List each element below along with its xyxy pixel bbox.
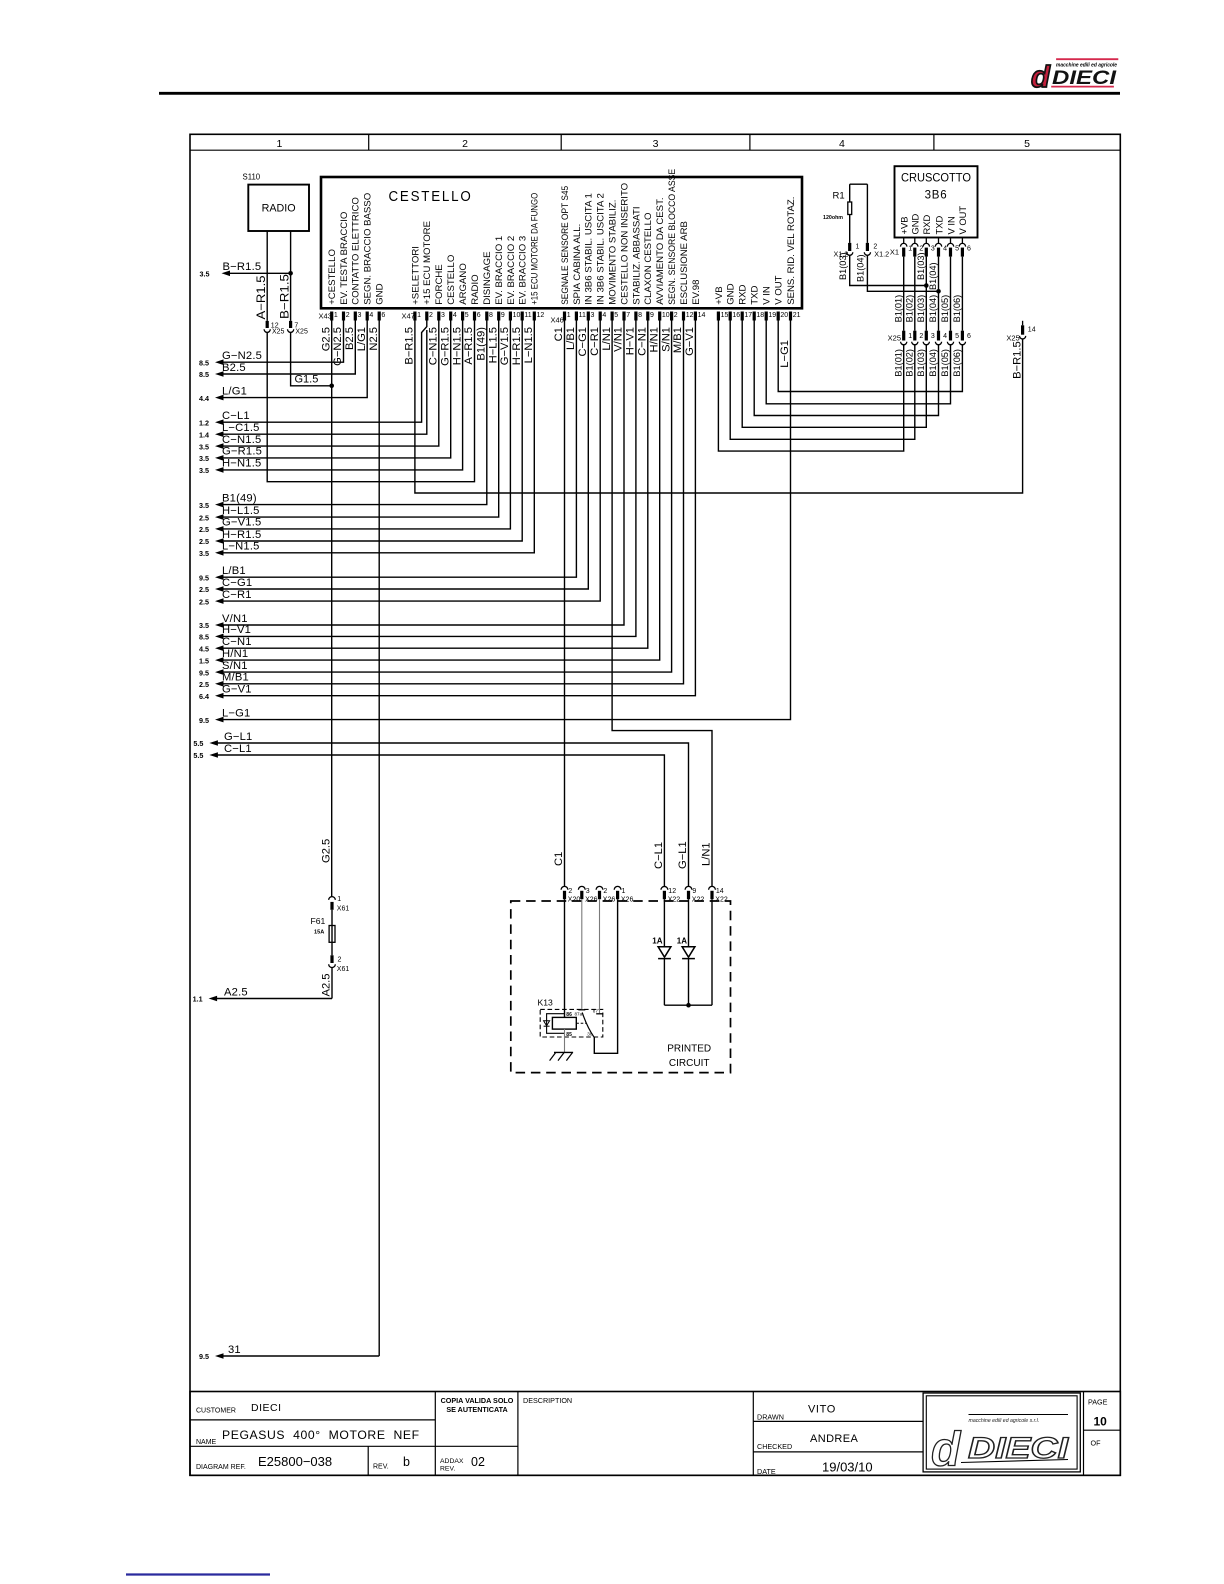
X1 pin 6 <box>961 238 963 244</box>
title block rows left <box>190 1419 435 1421</box>
svg-text:C−L1: C−L1 <box>222 410 250 422</box>
wire B1(06) X1 to X25 <box>961 257 963 331</box>
svg-text:120ohm: 120ohm <box>823 215 843 221</box>
wire X22-14 down <box>711 899 713 1005</box>
svg-text:2: 2 <box>919 333 923 340</box>
svg-text:N2.5: N2.5 <box>368 327 380 351</box>
svg-text:12: 12 <box>537 312 545 319</box>
svg-text:L/G1: L/G1 <box>356 327 368 351</box>
connector X22 pin 9 <box>685 886 692 889</box>
svg-text:3.5: 3.5 <box>200 269 210 278</box>
svg-text:1: 1 <box>622 888 626 895</box>
bottom DIECI logo box <box>923 1393 1080 1472</box>
svg-text:B1(06): B1(06) <box>952 295 962 323</box>
svg-text:d: d <box>1031 59 1051 94</box>
X46 pin 3 tick <box>587 312 590 321</box>
wire N2.5 X43 pin6 down <box>378 321 380 1357</box>
svg-text:REV.: REV. <box>440 1466 455 1473</box>
svg-text:X1: X1 <box>890 248 899 257</box>
relay K13 coil <box>552 1017 576 1029</box>
wire X26-3 to contact 87a <box>581 899 583 1009</box>
X46 pin 14 tick <box>694 312 697 321</box>
svg-text:14: 14 <box>1028 327 1036 334</box>
svg-text:F61: F61 <box>311 916 326 926</box>
wire B1(03) X1.2-1 to X1-3 <box>850 255 927 285</box>
wire RXD X46 pin17 to X25 pin3 <box>742 321 926 428</box>
svg-text:+CESTELLO: +CESTELLO <box>327 249 338 305</box>
svg-text:10: 10 <box>1094 1415 1108 1429</box>
svg-text:C−N1: C−N1 <box>222 636 252 648</box>
X46 pin 12 tick <box>682 312 685 321</box>
X46 pin 4 tick <box>599 312 602 321</box>
svg-text:3.5: 3.5 <box>199 466 209 475</box>
svg-text:+SELETTORI: +SELETTORI <box>410 246 421 305</box>
svg-text:9: 9 <box>501 312 505 319</box>
svg-text:5: 5 <box>955 246 959 253</box>
X1 pin 3 <box>925 238 927 244</box>
svg-text:FORCHE: FORCHE <box>434 264 445 305</box>
svg-text:VITO: VITO <box>808 1404 836 1416</box>
bottom blue scan mark <box>126 1573 270 1575</box>
X46 pin 16 tick <box>729 312 732 321</box>
svg-text:C−L1: C−L1 <box>224 743 252 755</box>
svg-text:B1(02): B1(02) <box>905 295 915 323</box>
connector X61 pin 1 <box>329 897 336 900</box>
X46 pin 8 tick <box>634 312 637 321</box>
svg-text:1A: 1A <box>677 937 687 946</box>
X46 pin 20 tick <box>777 312 780 321</box>
svg-text:87: 87 <box>593 1009 599 1014</box>
svg-text:COPIA VALIDA SOLO: COPIA VALIDA SOLO <box>441 1396 514 1405</box>
svg-text:21: 21 <box>793 312 801 319</box>
svg-text:DIECI: DIECI <box>251 1402 282 1414</box>
svg-text:A−R1.5: A−R1.5 <box>255 276 268 320</box>
svg-text:MOVIMENTO STABILIZ.: MOVIMENTO STABILIZ. <box>608 200 619 305</box>
svg-text:G2.5: G2.5 <box>320 327 332 351</box>
X25 pin 6 <box>961 331 964 341</box>
svg-text:1.4: 1.4 <box>199 430 209 439</box>
svg-text:REV.: REV. <box>373 1464 389 1471</box>
svg-text:2.5: 2.5 <box>199 525 209 534</box>
junction dot G1.5/G2.5 <box>329 384 334 389</box>
svg-text:1: 1 <box>417 312 421 319</box>
svg-text:C1: C1 <box>553 852 565 866</box>
X47 pin 6 tick <box>473 312 476 321</box>
svg-text:+15 ECU MOTORE DA FUNGO: +15 ECU MOTORE DA FUNGO <box>530 193 541 305</box>
X43 pin 2 tick <box>342 312 345 321</box>
svg-text:10: 10 <box>513 312 521 319</box>
svg-text:2.5: 2.5 <box>199 680 209 689</box>
svg-text:X25: X25 <box>888 334 901 343</box>
wire B1(03) X1 to X25 <box>925 257 927 331</box>
connector X26 pin 2 <box>596 886 603 889</box>
X46 pin 2 tick <box>670 312 673 321</box>
X46 pin 5 tick <box>611 312 614 321</box>
wire C-N1 <box>215 645 224 651</box>
svg-text:DIAGRAM REF.: DIAGRAM REF. <box>196 1464 246 1471</box>
svg-text:1: 1 <box>856 244 860 251</box>
svg-text:V/N1: V/N1 <box>222 613 248 625</box>
svg-text:CHECKED: CHECKED <box>757 1442 792 1451</box>
svg-text:EV. TESTA BRACCIO: EV. TESTA BRACCIO <box>339 212 350 305</box>
svg-text:d: d <box>931 1424 962 1477</box>
svg-text:3: 3 <box>441 312 445 319</box>
svg-text:C−L1: C−L1 <box>653 842 665 869</box>
svg-text:9: 9 <box>650 312 654 319</box>
wire B-R1.5 radio pin <box>290 231 292 321</box>
svg-text:G−V1: G−V1 <box>684 327 696 356</box>
svg-text:B2.5: B2.5 <box>222 362 246 374</box>
svg-text:A2.5: A2.5 <box>321 973 333 996</box>
fuse F61 <box>331 910 333 926</box>
svg-text:H−R1.5: H−R1.5 <box>511 327 523 365</box>
wire C-G1 <box>215 586 224 592</box>
wire C-L1 to X47 pin2 <box>215 419 224 425</box>
svg-text:C−G1: C−G1 <box>222 577 252 589</box>
svg-text:30: 30 <box>587 1031 593 1036</box>
svg-text:X61: X61 <box>337 966 350 973</box>
svg-text:G1.5: G1.5 <box>295 374 319 386</box>
svg-text:20: 20 <box>780 312 788 319</box>
svg-text:4: 4 <box>602 312 606 319</box>
svg-text:85: 85 <box>566 1032 572 1038</box>
svg-text:H−L1.5: H−L1.5 <box>487 327 499 363</box>
wire TXD X46 pin18 to X25 pin4 <box>754 321 938 416</box>
wire B1(49) <box>215 502 224 508</box>
svg-text:H−N1.5: H−N1.5 <box>222 458 261 470</box>
svg-text:3: 3 <box>653 138 659 150</box>
svg-text:3.5: 3.5 <box>199 442 209 451</box>
svg-text:3: 3 <box>591 312 595 319</box>
svg-text:11: 11 <box>524 312 531 319</box>
wire B1(05) X1 to X25 <box>950 257 952 331</box>
wire G-R1.5 <box>215 455 224 461</box>
svg-text:X43: X43 <box>319 312 332 321</box>
svg-text:+15 ECU MOTORE: +15 ECU MOTORE <box>422 221 433 305</box>
svg-text:CUSTOMER: CUSTOMER <box>196 1408 236 1415</box>
connector X26 pin 1 <box>614 886 621 889</box>
svg-text:R1: R1 <box>833 191 845 202</box>
svg-text:4: 4 <box>943 246 947 253</box>
svg-text:87a: 87a <box>575 1012 583 1017</box>
X46 pin 10 tick <box>658 312 661 321</box>
wire X22-12 through diode <box>663 899 665 947</box>
svg-text:14: 14 <box>716 888 724 895</box>
svg-text:4: 4 <box>453 312 457 319</box>
wire A-R1.5 to X47 pin 6 <box>267 321 474 482</box>
column header band <box>190 149 1120 151</box>
wire G-N2.5 <box>215 359 224 365</box>
svg-text:2.5: 2.5 <box>199 585 209 594</box>
svg-text:L/B1: L/B1 <box>565 327 577 350</box>
wire contact 30 to X26-1 <box>594 899 617 1053</box>
svg-text:RXD: RXD <box>738 284 749 304</box>
svg-text:G−V1: G−V1 <box>222 684 252 696</box>
svg-text:B1(04): B1(04) <box>928 349 938 377</box>
connector X22 pin 12 <box>661 886 668 889</box>
svg-text:1: 1 <box>334 312 338 319</box>
connector X26 pin 3 <box>578 886 585 889</box>
svg-text:CLAXON CESTELLO: CLAXON CESTELLO <box>643 213 654 305</box>
svg-text:PEGASUS 400° MOTORE NEF: PEGASUS 400° MOTORE NEF <box>222 1428 420 1442</box>
svg-text:C−G1: C−G1 <box>577 327 589 357</box>
X46 pin 19 tick <box>765 312 768 321</box>
svg-text:X22: X22 <box>692 897 705 904</box>
svg-text:B1(01): B1(01) <box>893 349 903 377</box>
svg-text:K13: K13 <box>538 998 554 1008</box>
svg-text:2: 2 <box>674 312 678 319</box>
svg-text:X46: X46 <box>551 316 564 325</box>
wire coil 85 to ground <box>564 1029 566 1052</box>
svg-text:DISINGAGE: DISINGAGE <box>482 251 493 304</box>
svg-text:G−N2.5: G−N2.5 <box>332 327 344 366</box>
svg-text:DESCRIPTION: DESCRIPTION <box>523 1396 572 1405</box>
svg-text:19: 19 <box>768 312 776 319</box>
wire V IN X46 pin19 to X25 pin5 <box>766 321 950 404</box>
svg-text:B1(49): B1(49) <box>222 492 257 504</box>
svg-text:V OUT: V OUT <box>774 275 785 304</box>
svg-text:CESTELLO: CESTELLO <box>446 255 457 305</box>
svg-text:B1(04): B1(04) <box>928 295 938 323</box>
svg-text:GND: GND <box>910 213 921 234</box>
title block rows right <box>753 1420 923 1422</box>
svg-text:1A: 1A <box>652 937 662 946</box>
svg-text:6: 6 <box>967 246 971 253</box>
X47 pin 10 tick <box>509 312 512 321</box>
wire H-R1.5 <box>215 538 224 544</box>
svg-text:2: 2 <box>603 888 607 895</box>
svg-text:B1(05): B1(05) <box>940 349 950 377</box>
X46 pin 18 tick <box>753 312 756 321</box>
svg-text:1.1: 1.1 <box>193 995 203 1004</box>
svg-text:3.5: 3.5 <box>199 454 209 463</box>
svg-text:4: 4 <box>839 138 845 150</box>
svg-text:TXD: TXD <box>933 216 944 235</box>
svg-text:V IN: V IN <box>945 216 956 234</box>
svg-text:RADIO: RADIO <box>470 274 481 304</box>
svg-text:SENS. RID. VEL ROTAZ.: SENS. RID. VEL ROTAZ. <box>786 197 797 305</box>
svg-text:TXD: TXD <box>750 286 761 305</box>
X1 pin 1 <box>903 238 905 244</box>
X25 pin 4 <box>937 331 940 341</box>
svg-text:DRAWN: DRAWN <box>757 1413 784 1422</box>
svg-text:V/N1: V/N1 <box>613 327 625 352</box>
svg-text:RXD: RXD <box>921 214 932 234</box>
svg-text:H−V1: H−V1 <box>222 624 251 636</box>
relay K13 coil-blade link <box>576 1022 586 1024</box>
svg-text:C−N1: C−N1 <box>637 327 649 356</box>
wire B-R1.5 X47 pin1 to X25 pin14 <box>415 321 1023 494</box>
svg-text:1: 1 <box>276 138 282 150</box>
X1 pin 5 <box>950 238 952 244</box>
wire L/G1 <box>215 395 224 401</box>
X47 pin 5 tick <box>461 312 464 321</box>
svg-text:4.5: 4.5 <box>199 644 209 653</box>
svg-text:3.5: 3.5 <box>199 549 209 558</box>
wire C1 X46 pin1 down <box>564 321 566 887</box>
svg-text:4: 4 <box>369 312 373 319</box>
connector X61 pin 2 <box>331 942 333 955</box>
junction dot diode bus <box>686 1003 691 1008</box>
svg-text:18: 18 <box>756 312 764 319</box>
svg-text:NAME: NAME <box>196 1439 217 1446</box>
svg-text:10: 10 <box>662 312 670 319</box>
X47 pin 12 tick <box>533 312 536 321</box>
svg-text:ARGANO: ARGANO <box>458 263 469 305</box>
svg-text:C−R1: C−R1 <box>222 589 252 601</box>
wire GND X46 pin16 to X25 pin2 <box>730 321 915 440</box>
svg-text:X25: X25 <box>1006 333 1019 342</box>
X46 pin 7 tick <box>622 312 625 321</box>
svg-text:B−R1.5: B−R1.5 <box>404 327 416 365</box>
svg-text:M/B1: M/B1 <box>672 327 684 353</box>
svg-text:8.5: 8.5 <box>199 370 209 379</box>
wire 31 <box>215 1353 224 1359</box>
svg-text:3: 3 <box>931 333 935 340</box>
wire A-R1.5 radio pin <box>266 231 268 321</box>
svg-text:6: 6 <box>381 312 385 319</box>
X47 pin 8 tick <box>485 312 488 321</box>
bottom DIECI logo <box>931 1415 1069 1477</box>
svg-text:X61: X61 <box>337 906 350 913</box>
svg-text:E25800−038: E25800−038 <box>258 1454 332 1469</box>
svg-text:SEGN. SENSORE BLOCCO ASSE: SEGN. SENSORE BLOCCO ASSE <box>667 169 678 305</box>
svg-text:C−R1: C−R1 <box>589 327 601 356</box>
connector X25 pin 12 <box>266 321 269 328</box>
svg-text:2: 2 <box>429 312 433 319</box>
svg-text:B1(01): B1(01) <box>893 295 903 323</box>
svg-text:6: 6 <box>967 333 971 340</box>
svg-text:G−V1.5: G−V1.5 <box>499 327 511 365</box>
svg-text:EV.98: EV.98 <box>691 280 702 305</box>
X43 pin 1 tick <box>330 312 333 321</box>
svg-text:2.5: 2.5 <box>199 597 209 606</box>
svg-text:G−N2.5: G−N2.5 <box>222 350 262 362</box>
svg-text:B1(02): B1(02) <box>905 349 915 377</box>
svg-text:H/N1: H/N1 <box>648 327 660 353</box>
svg-text:L−C1.5: L−C1.5 <box>222 422 260 434</box>
svg-text:16: 16 <box>732 312 740 319</box>
svg-text:3.5: 3.5 <box>199 501 209 510</box>
wire C-N1.5 <box>215 443 224 449</box>
svg-text:EV. BRACCIO 2: EV. BRACCIO 2 <box>506 236 517 305</box>
svg-text:A2.5: A2.5 <box>224 986 248 998</box>
svg-text:12: 12 <box>686 312 694 319</box>
svg-text:1.2: 1.2 <box>199 418 209 427</box>
svg-text:19/03/10: 19/03/10 <box>822 1460 873 1475</box>
wire +VB X46 pin15 to X25 pin1 <box>718 321 903 452</box>
wire L/N1 X46 pin5 to X22 pin14 <box>612 321 712 887</box>
X47 pin 3 tick <box>437 312 440 321</box>
ground <box>554 1051 573 1053</box>
svg-text:G−L1: G−L1 <box>677 841 689 869</box>
svg-text:B1(04): B1(04) <box>928 262 938 290</box>
svg-text:CESTELLO: CESTELLO <box>389 188 473 205</box>
wire B-R1.5 from left <box>222 271 231 277</box>
svg-text:S/N1: S/N1 <box>660 327 672 352</box>
svg-text:L/G1: L/G1 <box>222 385 247 397</box>
svg-text:B−R1.5: B−R1.5 <box>223 261 262 273</box>
wire G-L1 to X22 pin 9 <box>209 740 218 746</box>
svg-text:X20: X20 <box>568 897 581 904</box>
wire G1.5 segment <box>291 332 332 385</box>
svg-text:M/B1: M/B1 <box>222 672 249 684</box>
wire L/B1 <box>215 574 224 580</box>
svg-text:+VB: +VB <box>899 217 910 235</box>
svg-text:b: b <box>403 1455 410 1469</box>
svg-text:L−N1.5: L−N1.5 <box>222 541 260 553</box>
wire L-C1.5 to X47 pin2 <box>215 431 224 437</box>
column divider 3 <box>749 134 751 150</box>
svg-text:A−R1.5: A−R1.5 <box>463 327 475 365</box>
svg-text:H−N1.5: H−N1.5 <box>451 327 463 365</box>
connector X20 pin 2 <box>561 886 568 889</box>
svg-text:H/N1: H/N1 <box>222 648 248 660</box>
X43 pin 3 tick <box>354 312 357 321</box>
svg-text:B1(03): B1(03) <box>838 252 848 280</box>
svg-text:G−V1.5: G−V1.5 <box>222 517 261 529</box>
X43 pin 4 tick <box>366 312 369 321</box>
connector X22 pin 14 <box>709 886 716 889</box>
svg-text:C−N1.5: C−N1.5 <box>222 434 261 446</box>
svg-text:15A: 15A <box>314 930 324 936</box>
wire B1(01) X1 to X25 <box>903 257 905 331</box>
svg-text:X1.2: X1.2 <box>874 249 889 258</box>
X43 pin 6 tick <box>378 312 381 321</box>
svg-text:4: 4 <box>943 333 947 340</box>
svg-text:02: 02 <box>471 1455 485 1469</box>
CESTELLO box <box>321 177 802 308</box>
svg-text:EV. BRACCIO 3: EV. BRACCIO 3 <box>518 236 529 305</box>
junction dot B-R1.5/radio <box>288 271 293 276</box>
svg-text:ADDAX: ADDAX <box>440 1458 464 1465</box>
svg-text:5.5: 5.5 <box>193 751 203 760</box>
wire G-V1.5 <box>215 526 224 532</box>
svg-text:GND: GND <box>375 283 386 304</box>
svg-text:B−R1.5: B−R1.5 <box>278 274 291 319</box>
svg-text:L/B1: L/B1 <box>222 565 246 577</box>
svg-text:X26: X26 <box>621 897 634 904</box>
connector X1.2 pin 2 <box>866 243 869 251</box>
svg-text:8: 8 <box>638 312 642 319</box>
svg-text:CESTELLO NON INSERITO: CESTELLO NON INSERITO <box>619 183 630 305</box>
svg-text:X22: X22 <box>715 897 728 904</box>
svg-text:12: 12 <box>668 888 676 895</box>
relay K13 dashed outline <box>540 1009 603 1037</box>
svg-text:G2.5: G2.5 <box>320 839 332 863</box>
X1 pin 4 <box>938 238 940 244</box>
svg-text:G−R1.5: G−R1.5 <box>222 446 262 458</box>
svg-text:+VB: +VB <box>714 286 725 304</box>
svg-text:PRINTED: PRINTED <box>667 1044 711 1055</box>
svg-text:2: 2 <box>462 138 468 150</box>
X25 pin 3 <box>925 331 928 341</box>
svg-text:9.5: 9.5 <box>199 668 209 677</box>
svg-text:9.5: 9.5 <box>199 573 209 582</box>
svg-text:PAGE: PAGE <box>1088 1398 1108 1407</box>
svg-text:ESCLUSIONE ARB: ESCLUSIONE ARB <box>679 221 690 305</box>
junction dot B1(03) <box>924 283 929 288</box>
X46 pin 15 tick <box>717 312 720 321</box>
wire B2.5 <box>215 371 224 377</box>
svg-text:C1: C1 <box>553 327 565 341</box>
wire C-L1 to X22 pin 12 <box>209 752 218 758</box>
wire S/N1 <box>215 669 224 675</box>
svg-text:B1(49): B1(49) <box>476 327 488 361</box>
svg-text:2: 2 <box>568 888 572 895</box>
svg-text:86: 86 <box>566 1012 572 1018</box>
X46 pin 11 tick <box>575 312 578 321</box>
